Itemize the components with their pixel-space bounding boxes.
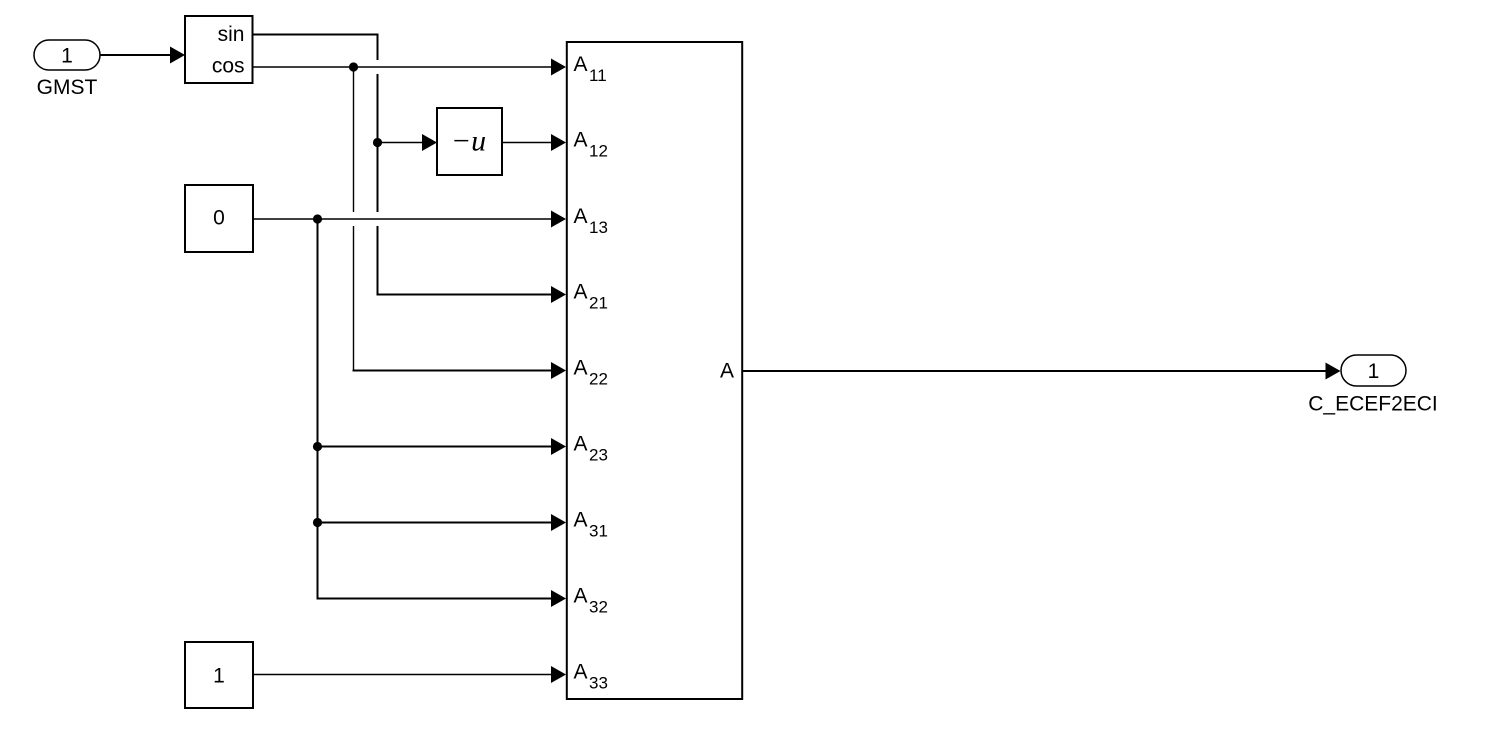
svg-text:cos: cos [212,55,245,78]
svg-text:A: A [574,585,588,608]
svg-text:31: 31 [589,522,608,541]
wire to A31 [318,514,567,531]
svg-text:1: 1 [1368,360,1380,383]
inport 1 GMST [34,40,100,99]
wire cos down to A22 [353,67,567,379]
svg-text:A: A [574,509,588,532]
svg-text:A: A [574,357,588,380]
svg-text:GMST: GMST [37,76,98,99]
svg-text:sin: sin [218,23,245,46]
gain -u [437,108,502,175]
svg-text:12: 12 [589,142,608,161]
junction A31 [313,518,322,527]
wire 0 down branch [317,219,319,600]
svg-text:11: 11 [589,66,607,85]
svg-text:A: A [574,129,588,152]
block sincos [185,16,253,83]
junction sin to gain [373,138,382,147]
svg-text:−u: −u [451,125,486,158]
svg-text:A: A [574,433,588,456]
wire to A32 [317,590,567,607]
svg-text:A: A [720,360,734,383]
svg-text:32: 32 [589,598,608,617]
matrix block [567,42,742,699]
svg-text:A: A [574,281,588,304]
wire 0 to A13 [253,211,566,228]
wire 1 to A33 [253,666,566,683]
svg-text:33: 33 [589,674,608,693]
svg-text:23: 23 [589,446,608,465]
wire gain to A12 [502,134,566,151]
svg-text:1: 1 [61,45,73,68]
constant 0 [185,185,253,252]
svg-text:1: 1 [213,665,225,688]
svg-text:C_ECEF2ECI: C_ECEF2ECI [1308,393,1438,416]
wire junction to gain [378,134,438,151]
wire A to outport [743,363,1341,380]
wire GMST to sincos [100,47,185,64]
constant 1 [185,642,253,708]
wire to A23 [318,438,567,455]
svg-text:0: 0 [213,207,225,230]
wire sin output [253,34,567,304]
svg-text:A: A [574,661,588,684]
svg-text:A: A [574,53,588,76]
outport 1 C_ECEF2ECI [1308,355,1438,416]
svg-text:13: 13 [589,218,608,237]
junction cos [349,62,358,71]
junction 0 [313,214,322,223]
junction A23 [313,442,322,451]
wire cos output to A11 [253,59,567,76]
svg-text:A: A [574,205,588,228]
svg-text:22: 22 [589,370,608,389]
svg-text:21: 21 [589,294,608,313]
